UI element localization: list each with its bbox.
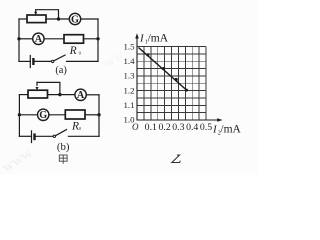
battery (circuit b) long plate <box>31 131 33 143</box>
svg-text:R: R <box>69 45 77 57</box>
circuit (a) right wire <box>97 19 99 61</box>
svg-text:1.5: 1.5 <box>124 41 136 51</box>
svg-text:0.4: 0.4 <box>186 122 198 133</box>
circuit (b) top row wire to rheostat <box>19 94 28 96</box>
ammeter A (circuit a) <box>33 33 44 44</box>
circuit (b) rheostat body <box>28 90 48 98</box>
circuit (a) node dot right middle <box>96 37 99 40</box>
data point 4 <box>185 89 188 92</box>
svg-text:(b): (b) <box>57 141 70 153</box>
svg-text:0.2: 0.2 <box>158 122 170 133</box>
circuit (a) node dot left middle <box>17 37 20 40</box>
circuit (b) wire battery to switch <box>36 135 53 137</box>
galvanometer G (circuit b) <box>38 109 49 120</box>
svg-text:0.1: 0.1 <box>145 122 157 133</box>
circuit (b) bottom wire to battery <box>19 135 31 137</box>
switch blade (circuit a) <box>54 55 65 61</box>
resistor R0 (circuit a) <box>64 35 84 44</box>
circuit (b) wire rheostat to A <box>48 94 76 96</box>
circuit (a) bottom wire to battery <box>19 60 30 62</box>
circuit (a) wire R0 to right wire <box>84 38 99 40</box>
circuit (b) wire A to right wire <box>86 94 99 96</box>
battery (circuit a) short plate <box>32 59 34 64</box>
svg-text:0.3: 0.3 <box>172 122 184 133</box>
label jiǎ 甲 under circuit b <box>59 155 67 164</box>
circuit (b) wiper wire to right lead <box>37 82 60 94</box>
circuit (b) wire G to R0 <box>49 114 66 116</box>
switch blade (circuit b) <box>56 130 67 136</box>
circuit (b) node dot left middle <box>18 113 21 116</box>
circuit (b) right wire <box>98 95 100 137</box>
ammeter A (circuit b) <box>75 89 86 100</box>
circuit (b) wire left to G <box>19 114 37 116</box>
switch pivot (circuit a) <box>52 60 54 62</box>
circuit (a) wire left to ammeter <box>19 38 33 40</box>
svg-text:G: G <box>71 14 79 25</box>
circuit (b) node junction dot at wiper tap <box>58 93 61 96</box>
svg-text:G: G <box>39 110 47 121</box>
svg-text:O: O <box>132 122 139 132</box>
galvanometer G (circuit a) <box>69 13 80 24</box>
svg-text:A: A <box>35 34 43 45</box>
svg-text:1.4: 1.4 <box>124 56 136 66</box>
circuit (b) wire switch to right wire <box>68 135 99 137</box>
data point 1 <box>146 53 149 56</box>
circuit (b) rheostat wiper arrow <box>36 82 38 85</box>
circuit (a) wire battery to switch <box>35 60 51 62</box>
circuit (b) node dot right middle <box>97 113 100 116</box>
resistor R0 (circuit b) <box>65 110 85 119</box>
label yǐ 乙 under graph <box>172 155 180 162</box>
switch pivot (circuit b) <box>53 135 55 137</box>
circuit (a) node junction dot at wiper tap <box>57 17 60 20</box>
svg-text:1.3: 1.3 <box>124 71 136 81</box>
circuit (a) rheostat body <box>27 15 46 23</box>
graph grid <box>137 47 206 121</box>
circuit (a) left wire <box>18 19 20 61</box>
data point 2 <box>162 67 165 70</box>
battery (circuit a) long plate <box>29 56 31 68</box>
x axis I2 <box>137 119 218 121</box>
circuit (a) wire switch to right wire <box>67 60 99 62</box>
circuit (a) wire A to R0 <box>44 38 64 40</box>
circuit (a) top row wire to rheostat <box>19 18 27 20</box>
circuit (a) rheostat wiper arrow <box>35 10 37 13</box>
svg-text:0.5: 0.5 <box>200 122 212 133</box>
svg-text:1.1: 1.1 <box>124 100 135 110</box>
circuit (a) wiper wire to right lead <box>36 10 59 19</box>
circuit (b) left wire <box>18 95 20 137</box>
svg-text:(a): (a) <box>55 65 67 76</box>
circuit (a) wire rheostat to G <box>46 18 69 20</box>
svg-text:/mA: /mA <box>220 124 241 136</box>
circuit (b) wire R0 to right wire <box>85 114 99 116</box>
data point 3 <box>175 78 178 81</box>
y axis I1 <box>136 38 138 121</box>
circuit (a) wire G to right wire <box>81 18 98 20</box>
svg-text:1.2: 1.2 <box>124 85 135 95</box>
data line <box>139 48 188 91</box>
svg-text:A: A <box>77 90 85 101</box>
battery (circuit b) short plate <box>33 135 35 139</box>
svg-text:/mA: /mA <box>148 33 169 45</box>
